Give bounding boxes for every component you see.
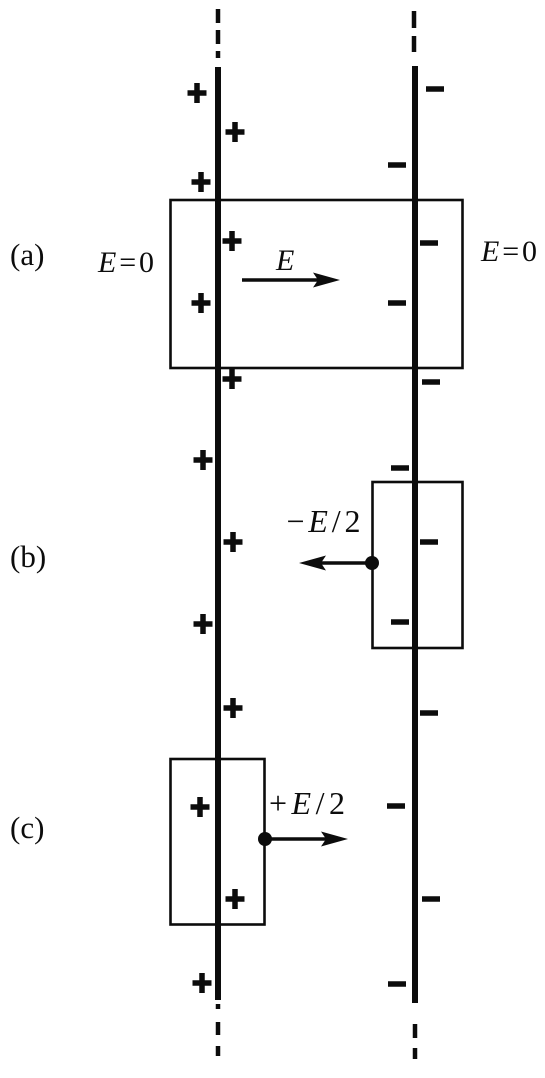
minus charge 4 (388, 300, 406, 306)
minus charge 6 (391, 465, 409, 471)
right plate dashed extension bottom (413, 1024, 418, 1059)
plus charge 4 (223, 231, 242, 251)
right plate dashed extension top (412, 11, 417, 52)
minus charge 3 (420, 240, 438, 246)
plus charge 2 (226, 122, 245, 142)
gaussian box (b) (373, 482, 463, 648)
minus charge 5 (422, 379, 440, 385)
gaussian box (a) (171, 200, 463, 368)
plus charge 9 (194, 614, 213, 634)
left plate (215, 67, 221, 1000)
plus charge 13 (193, 973, 212, 993)
svg-text:E=0: E=0 (480, 235, 537, 268)
arrow -E/2 (299, 556, 372, 571)
svg-text:−E/2: −E/2 (287, 503, 361, 539)
svg-text:(a): (a) (10, 237, 44, 272)
plus charge 8 (224, 532, 243, 552)
arrow +E/2 (265, 832, 348, 847)
minus charge 10 (387, 803, 405, 809)
dot on box b (365, 556, 379, 570)
left plate dashed extension top (216, 9, 221, 58)
minus charge 12 (388, 981, 406, 987)
plus charge 12 (226, 889, 245, 909)
plus charge 1 (188, 83, 207, 103)
plus charge 10 (224, 698, 243, 718)
field arrow E (242, 273, 340, 288)
gaussian box (c) (171, 759, 265, 925)
svg-text:(c): (c) (10, 810, 44, 845)
plus charge 5 (192, 293, 211, 313)
dot on box c (258, 832, 272, 846)
svg-text:E=0: E=0 (97, 246, 154, 279)
minus charge 8 (391, 619, 409, 625)
minus charge 11 (422, 896, 440, 902)
plus charge 6 (223, 369, 242, 389)
plus charge 11 (191, 797, 210, 817)
minus charge 9 (420, 710, 438, 716)
minus charge 2 (388, 162, 406, 168)
svg-text:(b): (b) (10, 539, 46, 574)
plus charge 7 (194, 450, 213, 470)
svg-text:+E/2: +E/2 (269, 785, 345, 821)
right plate (412, 66, 418, 1003)
left plate dashed extension bottom (216, 1004, 221, 1056)
svg-text:E: E (275, 244, 294, 277)
plus charge 3 (192, 172, 211, 192)
minus charge 7 (420, 539, 438, 545)
minus charge 1 (426, 86, 444, 92)
